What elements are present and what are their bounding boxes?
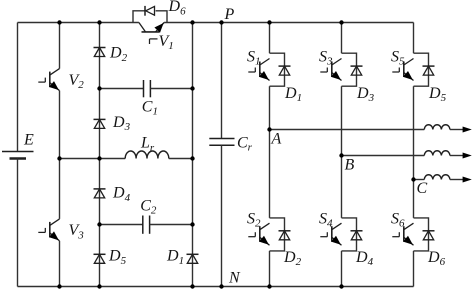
svg-text:V2: V2 [69,72,85,91]
junction mid/V-rail [57,156,61,160]
node B [339,153,343,157]
wire V-rail middle [59,91,61,219]
svg-text:N: N [228,269,241,286]
junction C2/right-rail [190,222,194,226]
diode D3 [94,118,106,120]
arrow phase C [463,177,472,183]
wire C2 branch left [100,224,143,226]
svg-text:S3: S3 [319,48,333,67]
svg-text:Lr: Lr [140,135,155,154]
svg-text:B: B [345,156,355,173]
svg-text:D5: D5 [108,248,127,267]
diode D6 [144,6,146,16]
wire Cr rail bottom [221,145,223,286]
inductor load phase C [424,175,450,180]
junction C2/D-rail [97,222,101,226]
diode D2 [94,47,106,49]
inductor Lr [125,151,169,158]
svg-text:V3: V3 [69,222,85,241]
wire leg diode branch (S1 cell) [270,53,285,86]
wire midline right [169,158,193,160]
junction bottom/right-rail [190,284,194,288]
arrow phase B [463,153,472,159]
wire bridge leg 1 upper [269,23,271,54]
diode D3 (bridge) [351,65,363,67]
svg-text:D2: D2 [109,45,128,64]
wire bridge leg 3 lower [413,251,415,287]
svg-text:D4: D4 [355,249,374,268]
wire phase B line [342,155,425,157]
svg-text:A: A [271,130,282,147]
wire midline left [60,158,126,160]
wire bridge leg 2 lower [341,251,343,287]
svg-text:S4: S4 [319,210,333,229]
wire D6 branch [133,11,167,23]
wire V-rail top [59,23,61,69]
inductor load phase A [424,125,450,130]
diode D1 [187,253,199,255]
svg-text:D6: D6 [427,249,446,268]
wire bottom rail N [18,286,414,288]
junction top/D-rail [97,20,101,24]
svg-text:D5: D5 [428,85,447,104]
junction bottom/Cr [219,284,223,288]
wire left rail upper (to battery) [17,23,19,152]
svg-text:D3: D3 [112,114,131,133]
wire phase A line [270,129,425,131]
wire top rail P (right of V1) [164,22,413,24]
svg-text:S6: S6 [391,210,405,229]
svg-text:D2: D2 [283,249,302,268]
diode D1 (bridge) [279,65,291,67]
node A [267,127,271,131]
svg-text:S5: S5 [391,48,405,67]
junction top/leg2 [339,20,343,24]
wire top rail P (left of V1) [18,22,139,24]
diode D5 [94,253,106,255]
junction C1/right-rail [190,86,194,90]
svg-text:C2: C2 [140,198,157,217]
wire left rail lower (battery to bottom) [17,159,19,287]
junction bottom/leg2 [339,284,343,288]
wire bridge leg 2 upper [341,23,343,54]
transistor V2 [50,69,60,76]
junction top/V-rail [57,20,61,24]
wire leg diode branch (S3 cell) [342,53,357,86]
capacitor C2 [142,216,144,234]
wire leg diode branch (S2 cell) [270,218,285,251]
junction top/Cr [219,20,223,24]
wire C2 branch right [150,224,193,226]
arrow phase A [463,127,472,133]
wire V-rail bottom [59,241,61,287]
diode D4 [94,188,106,190]
wire D-rail [99,23,101,287]
wire leg diode branch (S5 cell) [414,53,429,86]
svg-text:D4: D4 [112,185,131,204]
wire leg diode branch (S6 cell) [414,218,429,251]
svg-text:D3: D3 [356,85,375,104]
wire right snubber rail [192,23,194,287]
transistor S5 [404,59,414,66]
wire bridge leg 3 middle [413,86,415,218]
transistor S6 [404,223,414,230]
svg-text:C1: C1 [142,98,158,117]
svg-text:D6: D6 [168,0,187,17]
transistor V3 [50,219,60,226]
wire Cr rail top [221,23,223,139]
svg-text:E: E [23,131,34,148]
transistor S1 [260,59,270,66]
diode D2 (bridge) [279,230,291,232]
junction bottom/V-rail [57,284,61,288]
junction C1/D-rail [97,86,101,90]
diode D5 (bridge) [423,65,435,67]
junction top/right-rail [190,20,194,24]
wire C1 branch left [100,88,144,90]
diode D4 (bridge) [351,230,363,232]
svg-text:V1: V1 [159,33,174,52]
wire leg diode branch (S4 cell) [342,218,357,251]
junction mid/right-rail [190,156,194,160]
transistor S2 [260,223,270,230]
junction bottom/D-rail [97,284,101,288]
svg-text:P: P [224,6,235,23]
wire bridge leg 2 middle [341,86,343,218]
junction mid/D-rail [97,156,101,160]
transistor V1 [139,23,146,32]
svg-text:S2: S2 [247,210,261,229]
diode D6 (bridge) [423,230,435,232]
junction top/leg1 [267,20,271,24]
wire C1 branch right [150,88,192,90]
battery E plate short [10,157,27,159]
capacitor C1 [143,80,145,97]
svg-text:D1: D1 [284,85,302,104]
junction bottom/leg1 [267,284,271,288]
wire phase C line [414,179,425,181]
transistor S3 [332,59,342,66]
capacitor Cr [209,138,234,140]
node C [411,177,415,181]
wire bridge leg 1 lower [269,251,271,287]
svg-text:C: C [417,180,428,197]
svg-text:S1: S1 [247,48,261,67]
svg-text:D1: D1 [166,248,184,267]
wire bridge leg 3 upper [413,23,415,54]
inductor load phase B [424,151,450,156]
battery E plate long [2,151,34,153]
transistor S4 [332,223,342,230]
svg-text:Cr: Cr [237,135,253,154]
wire bridge leg 1 middle [269,86,271,218]
